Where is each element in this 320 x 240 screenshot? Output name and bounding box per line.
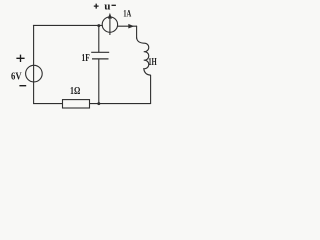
wire right branch bottom — [150, 75, 152, 103]
wire capacitor branch lower — [98, 59, 100, 104]
resistor R 1ohm body — [63, 100, 90, 108]
inductor L 1H coil — [137, 38, 151, 76]
wire left vertical — [33, 25, 35, 103]
current source U 1A circle — [102, 17, 117, 32]
wire right branch top — [136, 26, 138, 38]
label + of v — [94, 4, 99, 9]
wire bottom middle — [90, 103, 151, 105]
current source arrow — [109, 17, 111, 35]
node junction top — [97, 24, 100, 27]
svg-text:u: u — [104, 0, 110, 12]
wire bottom left — [34, 103, 63, 105]
label + of 6V — [16, 55, 24, 62]
wire current source to corner — [118, 25, 137, 27]
svg-text:6V: 6V — [11, 71, 22, 83]
capacitor C 1F bottom plate — [92, 58, 109, 60]
voltage source circle — [26, 65, 43, 82]
capacitor C 1F top plate — [91, 51, 109, 53]
label - of v — [112, 4, 116, 6]
wire arrow to inductor — [128, 24, 134, 29]
svg-text:1Ω: 1Ω — [70, 85, 80, 97]
svg-text:1F: 1F — [82, 53, 90, 64]
wire top (left corner to current source) — [33, 24, 102, 26]
svg-text:1H: 1H — [148, 57, 157, 68]
svg-text:1A: 1A — [123, 8, 131, 18]
node junction bottom — [97, 102, 100, 105]
wire capacitor branch upper — [98, 26, 100, 53]
label - of 6V — [19, 85, 26, 87]
